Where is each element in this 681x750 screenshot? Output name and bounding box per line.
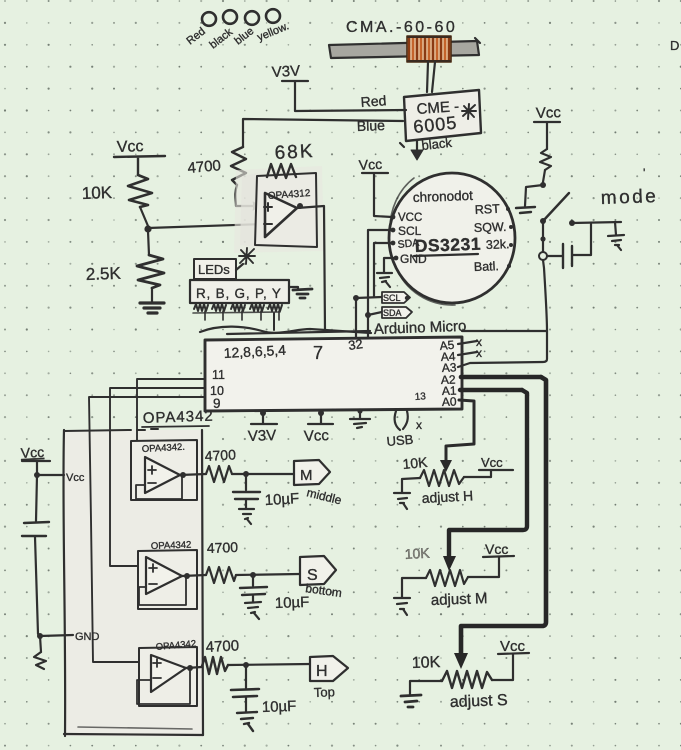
svg-text:adjust H: adjust H: [421, 487, 473, 506]
svg-text:10K: 10K: [404, 545, 430, 562]
svg-text:GND: GND: [400, 252, 427, 266]
svg-text:Batl.: Batl.: [474, 259, 499, 274]
svg-text:Blue: Blue: [357, 117, 386, 134]
svg-text:R, B, G, P, Y: R, B, G, P, Y: [196, 286, 282, 301]
svg-text:10µF: 10µF: [264, 490, 299, 509]
svg-text:32: 32: [347, 336, 363, 353]
svg-text:Vcc: Vcc: [500, 638, 526, 655]
svg-text:Red: Red: [360, 92, 387, 110]
svg-text:OPA4342: OPA4342: [151, 540, 192, 552]
svg-text:4700: 4700: [207, 539, 239, 556]
svg-text:SQW.: SQW.: [474, 220, 507, 235]
svg-text:adjust M: adjust M: [431, 590, 488, 609]
svg-text:9: 9: [213, 396, 221, 411]
svg-text:Top: Top: [314, 684, 335, 700]
svg-text:SDA: SDA: [383, 308, 402, 318]
svg-text:2.5K: 2.5K: [85, 264, 121, 284]
svg-text:11: 11: [212, 368, 225, 382]
svg-text:4700: 4700: [187, 157, 222, 177]
svg-text:13: 13: [414, 391, 426, 403]
svg-text:Vcc: Vcc: [481, 455, 503, 470]
svg-text:SDA: SDA: [397, 237, 420, 251]
svg-text:10µF: 10µF: [275, 594, 310, 612]
svg-text:10K: 10K: [402, 454, 429, 472]
svg-text:V3V: V3V: [248, 427, 277, 445]
svg-text:USB: USB: [386, 432, 414, 449]
svg-text:Arduino Micro: Arduino Micro: [374, 318, 467, 338]
svg-text:OPA4342: OPA4342: [143, 408, 214, 427]
svg-text:black: black: [421, 135, 453, 153]
svg-text:Vcc: Vcc: [117, 138, 144, 156]
svg-text:mode: mode: [600, 186, 658, 209]
svg-text:Vcc: Vcc: [536, 104, 562, 122]
svg-text:D: D: [670, 38, 679, 53]
svg-text:RST: RST: [474, 202, 500, 217]
svg-text:chronodot: chronodot: [413, 188, 474, 205]
svg-text:7: 7: [313, 343, 323, 363]
svg-text:OPA4342.: OPA4342.: [142, 442, 186, 455]
svg-text:LEDs: LEDs: [198, 262, 230, 277]
svg-text:H: H: [316, 663, 328, 680]
svg-text:VCC: VCC: [398, 212, 422, 224]
svg-text:10K: 10K: [412, 654, 441, 672]
svg-text:M: M: [300, 467, 313, 484]
svg-text:V3V: V3V: [271, 63, 300, 81]
svg-text:Vcc: Vcc: [358, 156, 382, 173]
svg-text:10K: 10K: [81, 183, 113, 203]
svg-text:68K: 68K: [274, 141, 315, 164]
svg-text:': ': [643, 166, 645, 180]
svg-text:Vcc: Vcc: [20, 444, 44, 461]
svg-text:x: x: [476, 346, 482, 360]
svg-text:GND: GND: [75, 631, 100, 643]
svg-text:A0: A0: [442, 394, 457, 409]
svg-text:Vcc: Vcc: [66, 472, 85, 484]
svg-text:32k.: 32k.: [486, 237, 510, 252]
svg-text:adjust S: adjust S: [450, 692, 508, 711]
svg-text:10µF: 10µF: [262, 698, 297, 716]
svg-text:CMA.-60-60: CMA.-60-60: [346, 19, 457, 36]
svg-text:x: x: [416, 418, 422, 432]
svg-text:4700: 4700: [205, 637, 239, 656]
svg-text:SCL: SCL: [383, 293, 401, 303]
svg-text:Vcc: Vcc: [485, 541, 508, 557]
svg-text:12,8,6,5,4: 12,8,6,5,4: [223, 342, 286, 361]
svg-text:Vcc: Vcc: [304, 427, 330, 445]
svg-text:4700: 4700: [204, 446, 236, 464]
